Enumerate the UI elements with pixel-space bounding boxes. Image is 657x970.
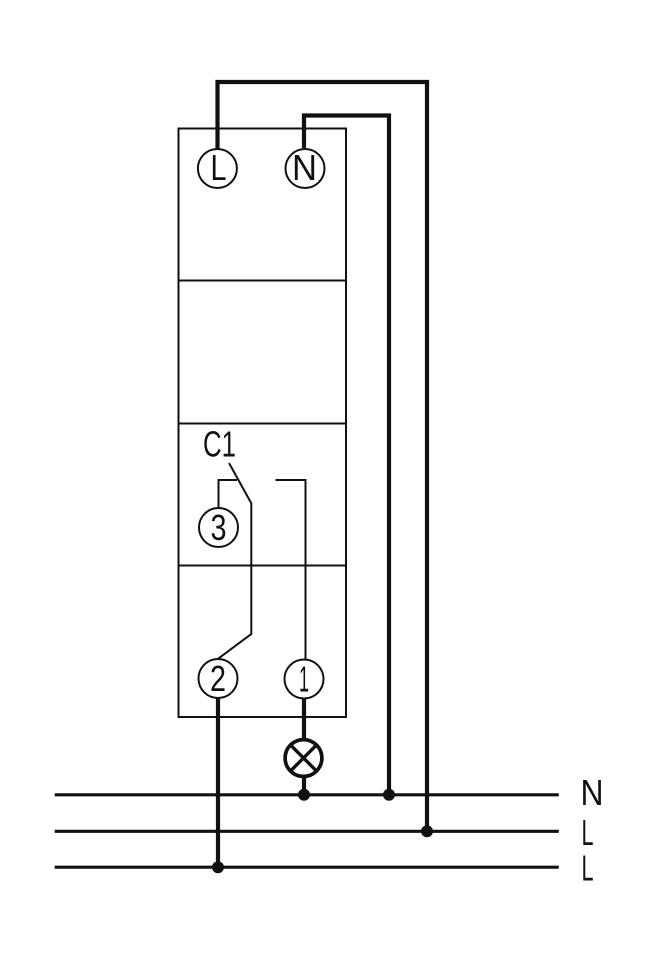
terminal 3 [199, 508, 238, 547]
wire lamp to N bus (thick) [302, 776, 306, 795]
svg-text:L: L [211, 147, 227, 188]
junction dot lamp/N bus [298, 789, 310, 801]
svg-text:2: 2 [210, 658, 226, 699]
lamp E1 (circle with X) [285, 740, 322, 777]
fixed contact to terminal 3 [219, 480, 238, 508]
fixed contact wire to terminal 1 [276, 480, 306, 660]
divider 1 [179, 280, 347, 282]
svg-text:C1: C1 [203, 424, 236, 465]
wire terminal 2 to L bus (thick) [216, 697, 220, 867]
device box (timer module outline) [179, 129, 347, 718]
svg-text:3: 3 [211, 507, 227, 548]
svg-text:L: L [582, 848, 594, 889]
terminal N [286, 149, 325, 188]
junction dot wire 2/L bus [212, 861, 224, 873]
wire N (thick: terminal N up, over, down to N bus) [304, 116, 389, 795]
terminal L [198, 149, 237, 188]
bus line N [55, 793, 559, 796]
contact C1 blade (to terminal 2) [218, 463, 251, 659]
svg-text:N: N [292, 147, 317, 188]
wire terminal 1 to lamp (thick) [302, 697, 306, 740]
junction dot wire L/L bus [421, 825, 433, 837]
terminal 2 [199, 659, 238, 698]
bus line L (middle) [55, 830, 559, 833]
wire L (thick: terminal L up, over, down to L bus) [218, 82, 428, 831]
junction dot wire N/N bus [383, 789, 395, 801]
bus line L (bottom) [55, 866, 559, 869]
terminal 1 [285, 660, 324, 699]
svg-text:1: 1 [299, 659, 309, 700]
svg-text:N: N [581, 772, 604, 813]
divider 2 [179, 423, 347, 425]
divider 3 [179, 565, 347, 567]
